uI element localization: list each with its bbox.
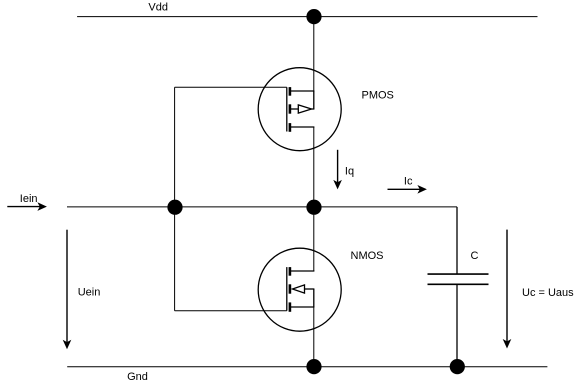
- wire: PMOS gate lead horizontal: [175, 86, 287, 88]
- wire: output node down to NMOS drain: [313, 207, 315, 271]
- wire: Vdd dot down to PMOS source: [313, 17, 315, 91]
- svg-text:NMOS: NMOS: [351, 250, 384, 262]
- wire: gate bus vertical (PMOS gate to NMOS gate): [174, 87, 176, 310]
- wire: NMOS source down to Gnd rail: [313, 307, 315, 367]
- arrow Iein (input current, pointing right): [7, 202, 47, 211]
- arrow Uein (input voltage, pointing down): [63, 230, 72, 350]
- node dot: output node junction: [306, 200, 321, 215]
- svg-text:Vdd: Vdd: [148, 1, 168, 13]
- wire: input node horizontal (Iein wire to capacitor): [67, 206, 457, 208]
- node dot: gate bus junction: [167, 200, 182, 215]
- svg-text:Uc = Uaus: Uc = Uaus: [522, 287, 574, 299]
- arrow Ic (capacitor current, pointing right): [388, 185, 427, 194]
- node junction dot on Vdd rail: [306, 9, 321, 24]
- capacitor C: [428, 207, 489, 367]
- transistor NMOS: [258, 248, 341, 331]
- svg-text:Uein: Uein: [78, 287, 101, 299]
- node dot: capacitor to Gnd junction: [450, 359, 465, 374]
- svg-text:Gnd: Gnd: [127, 371, 148, 382]
- transistor PMOS: [258, 68, 341, 151]
- wire: Gnd rail: [67, 366, 547, 368]
- wire: NMOS gate lead horizontal: [175, 310, 287, 312]
- arrow Uc = Uaus (output voltage, pointing down): [503, 230, 512, 349]
- svg-text:PMOS: PMOS: [362, 90, 394, 102]
- svg-text:Ic: Ic: [404, 175, 413, 187]
- svg-text:Iein: Iein: [20, 193, 38, 205]
- svg-text:C: C: [471, 250, 479, 262]
- wire: PMOS drain down to output node: [313, 127, 315, 207]
- svg-text:Iq: Iq: [345, 166, 354, 178]
- node dot: NMOS source to Gnd junction: [306, 359, 321, 374]
- arrow Iq (quiescent current, pointing down): [333, 150, 342, 190]
- wire: Vdd rail: [77, 16, 537, 18]
